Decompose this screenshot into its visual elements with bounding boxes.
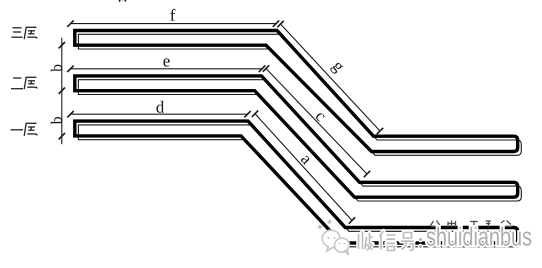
watermark latin text shuidianbus xyxy=(427,227,532,246)
dimension line b (vertical, left) xyxy=(59,38,65,144)
watermark chat-bubbles icon xyxy=(322,230,349,254)
label d xyxy=(156,101,164,113)
duct/tray run 2 (second floor) companion thin outline xyxy=(78,80,521,201)
dimension line d xyxy=(67,111,250,117)
floor label 二层 (hand-drawn strokes) xyxy=(11,77,37,89)
tick d right xyxy=(244,111,250,117)
dark caption remnants above lowest tray xyxy=(431,221,513,228)
tick f left xyxy=(67,20,73,26)
label c xyxy=(316,113,325,121)
floor label 一层 (hand-drawn strokes) xyxy=(11,123,38,136)
tick f right xyxy=(273,20,279,26)
floor label 三层 (hand-drawn strokes) xyxy=(12,27,38,39)
tick e left xyxy=(67,66,73,72)
label b (lower) xyxy=(51,117,62,124)
duct/tray run 2 (second floor) main outline xyxy=(75,76,518,197)
watermark sparkle marks xyxy=(318,220,332,230)
watermark colon xyxy=(419,238,422,241)
label b (upper) xyxy=(51,65,62,72)
duct/tray run 1 (third floor) companion thin outline xyxy=(78,34,521,155)
tick e right xyxy=(259,66,265,72)
duct/tray run 3 (first floor) companion thin outline xyxy=(78,125,521,247)
watermark group xyxy=(318,220,532,255)
dimension line c (sloped) xyxy=(263,65,370,177)
label f xyxy=(170,9,175,21)
cropped caption glyph at very top edge xyxy=(119,0,126,2)
dimension line a (sloped) xyxy=(252,111,355,224)
dimension line f xyxy=(67,20,279,26)
duct/tray run 1 (third floor) main outline xyxy=(75,31,518,152)
label g xyxy=(330,63,343,74)
dimension line e xyxy=(67,66,265,72)
dimension line g (sloped) xyxy=(277,21,383,134)
duct/tray run 3 (first floor) main outline xyxy=(75,121,518,243)
watermark 微信号 hand strokes with halo xyxy=(359,231,414,251)
label e xyxy=(163,58,169,66)
tick d left xyxy=(67,111,73,117)
label a xyxy=(301,156,309,166)
